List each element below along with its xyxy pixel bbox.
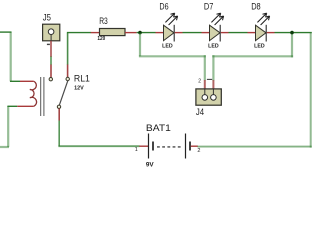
LED D6 emission arrows — [165, 13, 174, 22]
svg-text:LED: LED — [162, 44, 173, 50]
svg-text:2: 2 — [197, 148, 200, 154]
wire D7 to D8 — [229, 32, 248, 34]
pin RL1 coil top red stub — [20, 80, 34, 82]
battery BAT1 right short plate — [189, 142, 191, 151]
svg-text:J4: J4 — [196, 107, 204, 117]
svg-text:2: 2 — [198, 79, 201, 85]
svg-text:J5: J5 — [43, 12, 51, 22]
svg-text:RL1: RL1 — [74, 73, 90, 83]
pin relay contact NO red — [50, 65, 52, 78]
wire right vertical — [310, 33, 312, 148]
LED D8 group — [248, 1, 275, 49]
wire arm to bottom — [58, 121, 60, 147]
diode D8 cathode bar — [265, 25, 267, 42]
junction node right — [290, 31, 294, 35]
diode D7 cathode bar — [219, 25, 221, 42]
pin relay arm red — [58, 108, 60, 120]
wire switch common vertical — [67, 33, 69, 65]
diode D7 triangle — [210, 25, 221, 40]
relay RL1 core bars — [40, 77, 42, 116]
LED D8 emission arrows — [257, 13, 266, 22]
wire segment A down to J4 — [204, 55, 206, 80]
battery BAT1 dashed link — [157, 146, 181, 148]
svg-text:D8: D8 — [251, 1, 261, 11]
svg-text:D6: D6 — [159, 1, 168, 11]
wire top-left exit — [0, 31, 11, 33]
wire R3 to D6 — [137, 32, 156, 34]
svg-text:LED: LED — [208, 44, 219, 50]
svg-text:9V: 9V — [146, 162, 154, 169]
wire segment B up to junction — [291, 33, 293, 57]
LED D7 group — [202, 1, 229, 49]
relay RL1 coil — [30, 81, 37, 106]
wire left vertical — [10, 32, 12, 82]
pin J5 red stub — [50, 41, 52, 57]
relay RL1 switch arm — [59, 80, 68, 105]
battery BAT1 right long plate — [185, 134, 187, 159]
pin BAT1 1 red stub — [139, 145, 148, 147]
wire J5 to contact — [50, 57, 52, 65]
diode D6 cathode bar — [173, 25, 175, 42]
resistor R3 left red stub — [91, 32, 100, 34]
wire segment A horizontal to J4 pin 1 — [139, 55, 206, 57]
wire segment B up from J4 pin 2 — [212, 55, 214, 80]
battery BAT1 left long plate — [148, 134, 150, 159]
svg-text:12V: 12V — [74, 85, 84, 91]
wire bottom-left exit — [0, 146, 9, 148]
svg-text:120: 120 — [97, 36, 105, 42]
wire into D6 — [156, 32, 164, 34]
LED D6 group — [156, 1, 183, 49]
pin relay contact common red — [67, 65, 69, 78]
wire bottom run right — [198, 146, 312, 148]
wire D6 to D7 — [183, 32, 202, 34]
pin BAT1 2 red stub — [191, 145, 198, 147]
resistor R3 body — [100, 29, 126, 36]
relay RL1 contact circles — [49, 78, 52, 81]
wire D8 to right corner — [275, 32, 312, 34]
connector J5 body — [43, 24, 60, 41]
pin D6 cathode red — [175, 32, 183, 34]
pin D7 cathode red — [221, 32, 229, 34]
wire switch common horizontal top — [67, 32, 91, 34]
pin D8 anode red — [248, 32, 256, 34]
relay RL1 arm pivot — [57, 105, 60, 108]
pin RL1 coil bottom red stub — [17, 105, 34, 107]
pin D7 anode red — [202, 32, 210, 34]
pin D8 cathode red — [267, 32, 275, 34]
pin number tick J4 pin2 — [207, 78, 212, 80]
pin J4 1 red — [204, 80, 206, 89]
pin number tick J5 — [47, 43, 50, 45]
wire segment B horizontal — [212, 55, 293, 57]
wire bottom-left vertical — [7, 106, 9, 147]
svg-text:1: 1 — [135, 147, 138, 153]
wire bottom run left — [58, 145, 139, 147]
svg-text:D7: D7 — [204, 1, 214, 11]
svg-text:BAT1: BAT1 — [146, 123, 171, 134]
connector J4 body — [196, 89, 221, 105]
junction node left — [138, 31, 142, 35]
pin J4 2 red — [212, 80, 214, 89]
svg-text:R3: R3 — [99, 16, 108, 26]
diode D6 triangle — [164, 25, 175, 40]
diode D8 triangle — [256, 25, 267, 40]
LED D7 emission arrows — [211, 13, 220, 22]
wire junction down (segment A vertical) — [139, 33, 141, 56]
battery BAT1 left short plate — [152, 142, 154, 151]
wire coil bottom green — [8, 105, 18, 107]
svg-text:LED: LED — [254, 44, 265, 50]
resistor R3 right red stub — [125, 32, 137, 34]
wire coil top green — [10, 80, 20, 82]
